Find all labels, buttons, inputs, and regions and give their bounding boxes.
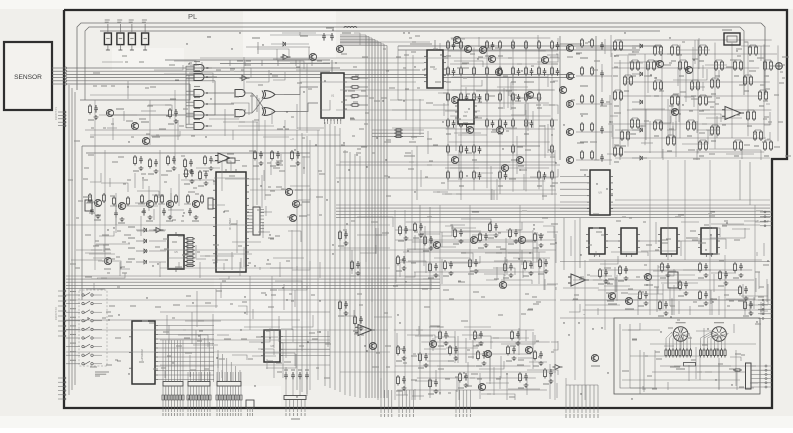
IC U8 switcher bbox=[261, 330, 283, 362]
mesh texture top strip bbox=[257, 32, 360, 60]
wire socket rows bus bbox=[660, 365, 756, 367]
IC U5 bbox=[168, 232, 187, 272]
AND gate G6 bbox=[186, 120, 212, 130]
mesh texture sockets region bbox=[628, 323, 758, 390]
bottom pin group BG2 bbox=[399, 390, 413, 417]
wire gates column links bbox=[251, 93, 253, 113]
wire ladder columns bbox=[448, 39, 552, 195]
svg-text:uPD4002: uPD4002 bbox=[140, 349, 144, 361]
svg-text:U9: U9 bbox=[598, 191, 602, 195]
op-amp U15 bbox=[722, 107, 744, 120]
wire right block columns bbox=[612, 40, 778, 158]
mesh texture region H1 bbox=[395, 219, 558, 290]
resistor R_out small bbox=[733, 369, 742, 371]
wire H2 rails bbox=[394, 330, 550, 390]
wire U4 right fan to RA1 bbox=[246, 210, 249, 232]
left pin column lower bbox=[58, 377, 66, 400]
wire sensor drop2 bbox=[110, 81, 215, 115]
wire main bus group B (left mid-bottom) bbox=[66, 276, 440, 288]
wire gate feed vertical bbox=[188, 75, 190, 124]
wire output box internals bbox=[622, 324, 756, 388]
top-left small parts bbox=[88, 104, 98, 120]
wire sensor drop bbox=[80, 84, 190, 100]
small box U4 left bbox=[208, 198, 213, 209]
sensor pin circles bbox=[64, 67, 66, 69]
IC U10 row bbox=[586, 228, 608, 257]
AND gate G3 bbox=[186, 87, 212, 97]
wire logic to U1 bbox=[284, 87, 318, 95]
wire riser group to CN bars bbox=[163, 340, 183, 372]
analog stage cluster row2 bbox=[86, 193, 106, 220]
op-amp U17 bbox=[568, 274, 589, 286]
switch bank SW1-SW9 bbox=[66, 292, 102, 365]
connector bar CN3 bbox=[216, 372, 242, 416]
IC U1 MN4163 bbox=[321, 73, 347, 121]
svg-text:FRONT P2: FRONT P2 bbox=[54, 307, 58, 320]
output section box bbox=[614, 318, 760, 394]
mesh texture logic area bbox=[99, 57, 330, 140]
IC U3 bbox=[455, 100, 477, 124]
wire long routing lines bbox=[66, 42, 770, 372]
wire inner loop bus top bbox=[77, 23, 761, 90]
inverter G11 bbox=[240, 76, 250, 81]
wire right block border bbox=[595, 36, 597, 160]
wire U1 bottom drops bbox=[324, 118, 341, 124]
wire latch cross-coupling bbox=[256, 98, 264, 109]
wire bus top 3 bbox=[100, 30, 660, 32]
resistor pack R3 bbox=[128, 20, 135, 50]
junction dots scatter bbox=[87, 29, 768, 399]
left margin pin column upper bbox=[58, 111, 66, 127]
mesh texture analog box bbox=[90, 154, 310, 270]
inverter G12 bbox=[281, 55, 291, 60]
label under switches bbox=[95, 372, 109, 374]
AND gate G8 bbox=[235, 110, 252, 117]
mesh texture region I bbox=[563, 256, 768, 315]
wire bus B risers bbox=[120, 262, 400, 278]
resistor array RA1 bbox=[249, 207, 264, 235]
wire U1 right stubs resistors bbox=[344, 77, 368, 107]
IC U9 bbox=[587, 170, 613, 215]
socket V1 resistor row bbox=[665, 341, 692, 358]
wire top area stubs bbox=[229, 60, 231, 66]
svg-text:U5: U5 bbox=[174, 250, 178, 254]
wire U2 top bbox=[434, 40, 436, 50]
right block clusters bbox=[613, 40, 622, 56]
svg-text:PL: PL bbox=[188, 12, 197, 21]
capacitor group bottom center bbox=[284, 370, 309, 396]
top-middle parts bbox=[246, 28, 344, 61]
connector CN4 small bbox=[246, 400, 254, 416]
wire gate outputs to IC bbox=[212, 93, 234, 115]
tube socket V1 bbox=[673, 323, 688, 342]
connector bar CN1 bbox=[162, 372, 184, 416]
transistors in ladder bbox=[453, 36, 460, 43]
wire socket V1 pin fan bbox=[666, 332, 691, 341]
right edge pins upper bbox=[760, 211, 772, 227]
AND gate G2 bbox=[186, 71, 212, 81]
wire ladder rows bbox=[445, 38, 557, 194]
wire sensor bus to logic bbox=[67, 67, 340, 69]
mesh texture region G bbox=[602, 35, 770, 160]
transistor trio right of U4 bbox=[285, 188, 303, 195]
wire divider right mid bbox=[560, 261, 770, 263]
resistor pack R4 bbox=[142, 20, 149, 50]
resistor pack R2 bbox=[117, 20, 124, 50]
clusters lower right mid bbox=[618, 265, 628, 281]
connector J9 right bbox=[770, 63, 782, 70]
bottom pin group BG4 bbox=[566, 378, 598, 418]
stage clusters H1 bbox=[398, 225, 408, 241]
IC U13 row bbox=[698, 228, 720, 257]
clusters mid-left column bbox=[338, 230, 348, 246]
amplifier row block right bbox=[566, 38, 642, 58]
small source box left bbox=[83, 197, 92, 211]
transistors lower right cluster bbox=[644, 273, 653, 285]
inductor L7 bbox=[344, 26, 357, 28]
bottom pin group BG1 bbox=[381, 378, 392, 417]
small box right mid bbox=[668, 272, 678, 288]
wire bus to U2 links bbox=[372, 129, 424, 138]
connector bar CN5 bbox=[284, 396, 306, 420]
speaker bar below socket V1 bbox=[676, 363, 696, 370]
wire right block rails bbox=[608, 40, 777, 152]
IC U12 row bbox=[658, 228, 680, 257]
IC U14 regulator bbox=[722, 30, 740, 45]
connector J10 vertical bbox=[746, 363, 773, 389]
socket V2 resistor row bbox=[699, 341, 726, 358]
wire top-right bus drop2 bbox=[740, 27, 744, 95]
wire long vertical routing lines bbox=[95, 90, 755, 400]
mesh texture region H2 bbox=[396, 326, 558, 400]
mesh texture region E bbox=[420, 35, 558, 200]
wire top labeled bus B bbox=[398, 49, 640, 51]
transistors top-left bbox=[106, 109, 124, 117]
mesh texture region D bbox=[165, 276, 328, 378]
wire horizontal misc mid bbox=[66, 130, 770, 320]
svg-text:FRONT P1: FRONT P1 bbox=[54, 107, 58, 120]
wire top-right bus drop bbox=[761, 23, 765, 95]
wire bus fan top bends bbox=[340, 35, 387, 46]
svg-text:SENSOR: SENSOR bbox=[14, 74, 42, 81]
wire I rails bbox=[572, 260, 764, 310]
wire inner loop bus 2 bbox=[85, 27, 740, 100]
transistor Q20 bbox=[104, 257, 111, 264]
wire analog section divider2 bbox=[86, 152, 310, 154]
AND gate G4 bbox=[186, 98, 212, 108]
IC U2 bbox=[424, 50, 446, 88]
wire row ICs links bbox=[605, 240, 621, 242]
left pin column mid bbox=[58, 290, 66, 337]
wire verticals center-left bbox=[253, 120, 340, 394]
transistor right cluster bbox=[656, 60, 663, 67]
inverter G14 bbox=[553, 365, 563, 370]
wire analog section divider bbox=[82, 145, 540, 147]
transistors H bbox=[470, 236, 477, 243]
wire U1 top feed bbox=[331, 60, 333, 73]
inverter G13 bbox=[154, 228, 164, 233]
wire logic area top rails bbox=[165, 59, 330, 61]
right edge pin column bbox=[758, 299, 772, 319]
svg-text:U3: U3 bbox=[464, 110, 468, 114]
U5 right resistor stubs bbox=[185, 238, 195, 267]
tube socket V2 bbox=[712, 323, 727, 342]
wire analog left verticals bbox=[81, 146, 83, 300]
mesh texture region ICs row bbox=[571, 220, 768, 256]
wire verticals mid bbox=[345, 146, 430, 400]
wire socket V2 pin fan bbox=[701, 332, 729, 341]
resistor pack R1 bbox=[104, 20, 111, 50]
analog row caps bbox=[133, 155, 143, 171]
IC U6 uP-4002 bbox=[129, 321, 158, 384]
AND gate G5 bbox=[186, 109, 212, 119]
wire web upper middle bbox=[290, 46, 458, 140]
SENSOR box bbox=[4, 42, 52, 110]
wire U6 fan drops bbox=[196, 330, 240, 382]
bottom pin group BG3 bbox=[456, 390, 470, 417]
wire H1 rails bbox=[399, 222, 547, 272]
IC U11 row bbox=[618, 228, 640, 257]
XOR latch gate G9 bbox=[262, 91, 284, 99]
wire U8 leads right bbox=[283, 336, 330, 355]
AND gate G7 bbox=[235, 90, 252, 97]
wire verticals right bbox=[564, 60, 750, 394]
diode ladder left of U5 bbox=[128, 227, 166, 264]
wire sensor harness bbox=[52, 67, 64, 69]
wire U9 left feeds bbox=[560, 176, 587, 208]
stage clusters H2 (bottom rows) bbox=[396, 345, 406, 361]
mesh texture mid-left column bbox=[343, 217, 395, 317]
IC U4 microcontroller bbox=[213, 169, 249, 272]
wire central vertical bus fan bbox=[366, 35, 387, 398]
label L7 bbox=[342, 32, 351, 34]
op-amp U16 bbox=[215, 153, 233, 163]
crystal X1 bbox=[222, 158, 240, 163]
wire right area rails bbox=[560, 35, 790, 37]
wire U6 right fan bbox=[158, 326, 214, 380]
connector bar CN2 bbox=[187, 372, 211, 416]
switch bank dashed outline bbox=[79, 290, 107, 366]
output section inner line bbox=[620, 324, 754, 388]
svg-text:U8: U8 bbox=[270, 344, 274, 348]
AND gate G1 bbox=[186, 62, 212, 72]
svg-text:U1: U1 bbox=[331, 94, 335, 98]
transistors H2 bbox=[429, 340, 436, 347]
mesh texture far left strip bbox=[71, 231, 130, 290]
XOR latch gate G10 bbox=[262, 108, 284, 116]
wire gate input rail bbox=[185, 66, 187, 128]
wire main bus group A (right) bbox=[336, 205, 770, 217]
op-amp U18 bbox=[355, 325, 375, 336]
RC ladder network center bbox=[446, 40, 455, 56]
label smudges scatter bbox=[68, 36, 791, 397]
svg-text:U2: U2 bbox=[433, 67, 437, 71]
wire top labeled bus A bbox=[398, 45, 662, 47]
